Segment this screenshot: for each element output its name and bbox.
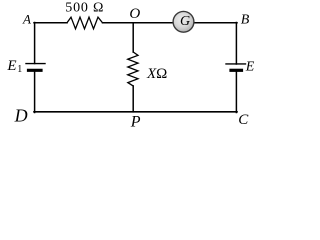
svg-text:G: G <box>180 14 190 29</box>
svg-text:E: E <box>245 60 255 75</box>
svg-text:O: O <box>129 6 140 22</box>
svg-text:E: E <box>6 58 16 74</box>
svg-text:500 Ω: 500 Ω <box>65 1 104 16</box>
svg-text:1: 1 <box>17 64 22 75</box>
svg-text:A: A <box>22 11 31 26</box>
svg-text:D: D <box>14 105 28 125</box>
svg-text:C: C <box>238 112 249 128</box>
svg-text:B: B <box>241 13 250 28</box>
svg-text:P: P <box>130 114 141 131</box>
svg-text:XΩ: XΩ <box>146 66 167 82</box>
